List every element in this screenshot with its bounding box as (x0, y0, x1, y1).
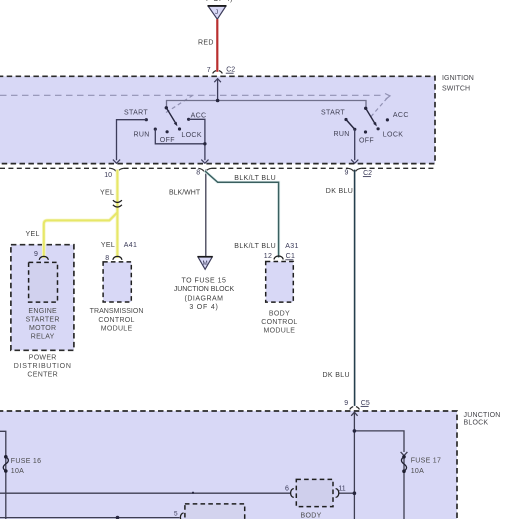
svg-text:P OF 4): P OF 4) (206, 0, 233, 3)
svg-text:START: START (124, 110, 148, 117)
svg-text:M: M (203, 260, 208, 267)
svg-text:TRANSMISSION: TRANSMISSION (90, 308, 144, 315)
svg-text:ACC: ACC (393, 112, 409, 119)
svg-text:8: 8 (196, 169, 200, 176)
svg-text:BLOCK: BLOCK (464, 419, 489, 426)
svg-text:A31: A31 (285, 243, 299, 250)
svg-text:(DIAGRAM: (DIAGRAM (185, 296, 224, 303)
svg-text:A41: A41 (124, 242, 138, 249)
svg-text:MODULE: MODULE (264, 327, 296, 334)
svg-text:10A: 10A (11, 468, 24, 475)
svg-text:YEL: YEL (101, 242, 115, 249)
svg-text:JUNCTION: JUNCTION (464, 412, 501, 419)
svg-text:BODY: BODY (301, 513, 322, 520)
svg-text:BLK/LT BLU: BLK/LT BLU (234, 243, 276, 250)
svg-text:SWITCH: SWITCH (442, 86, 470, 93)
svg-text:IGNITION: IGNITION (442, 75, 474, 82)
svg-text:OFF: OFF (359, 137, 374, 144)
svg-text:J: J (215, 9, 218, 16)
svg-text:ACC: ACC (191, 112, 207, 119)
svg-text:10A: 10A (411, 468, 424, 475)
svg-text:CONTROL: CONTROL (261, 319, 297, 326)
svg-text:BLK/WHT: BLK/WHT (169, 189, 201, 196)
svg-text:BLK/LT BLU: BLK/LT BLU (234, 175, 276, 182)
svg-text:DK BLU: DK BLU (326, 188, 353, 195)
svg-text:C2: C2 (363, 170, 372, 177)
svg-text:9: 9 (344, 400, 348, 407)
svg-text:RED: RED (198, 40, 214, 47)
svg-text:12: 12 (264, 253, 273, 260)
svg-text:DK BLU: DK BLU (323, 372, 350, 379)
svg-text:RUN: RUN (334, 131, 350, 138)
svg-text:FUSE 16: FUSE 16 (11, 458, 42, 465)
svg-text:11: 11 (338, 485, 345, 492)
svg-text:6: 6 (285, 485, 289, 492)
svg-text:ENGINE: ENGINE (28, 308, 57, 315)
svg-text:8: 8 (105, 255, 109, 262)
svg-text:START: START (321, 110, 345, 117)
svg-text:YEL: YEL (26, 231, 40, 238)
svg-text:LOCK: LOCK (181, 132, 201, 139)
svg-text:RUN: RUN (134, 132, 150, 139)
svg-text:C5: C5 (361, 400, 370, 407)
svg-text:POWER: POWER (29, 355, 57, 362)
svg-text:TO FUSE 15: TO FUSE 15 (182, 277, 227, 284)
svg-text:7: 7 (207, 67, 211, 74)
svg-text:CONTROL: CONTROL (98, 317, 134, 324)
svg-text:3 OF 4): 3 OF 4) (189, 304, 218, 311)
svg-text:DISTRIBUTION: DISTRIBUTION (14, 363, 72, 370)
svg-text:YEL: YEL (100, 189, 114, 196)
svg-text:OFF: OFF (160, 137, 175, 144)
svg-text:FUSE 17: FUSE 17 (411, 457, 442, 464)
svg-text:10: 10 (104, 172, 112, 179)
svg-text:9: 9 (34, 251, 38, 258)
svg-text:C2: C2 (226, 67, 235, 74)
svg-text:JUNCTION BLOCK: JUNCTION BLOCK (174, 286, 235, 293)
svg-text:RELAY: RELAY (31, 334, 55, 341)
svg-text:BODY: BODY (269, 311, 290, 318)
svg-text:MODULE: MODULE (101, 326, 133, 333)
svg-text:CENTER: CENTER (27, 372, 58, 379)
svg-text:MOTOR: MOTOR (29, 325, 56, 332)
svg-text:9: 9 (345, 170, 349, 177)
svg-text:STARTER: STARTER (26, 317, 60, 324)
svg-text:LOCK: LOCK (383, 132, 403, 139)
svg-text:5: 5 (174, 510, 178, 517)
svg-text:C1: C1 (286, 253, 296, 260)
